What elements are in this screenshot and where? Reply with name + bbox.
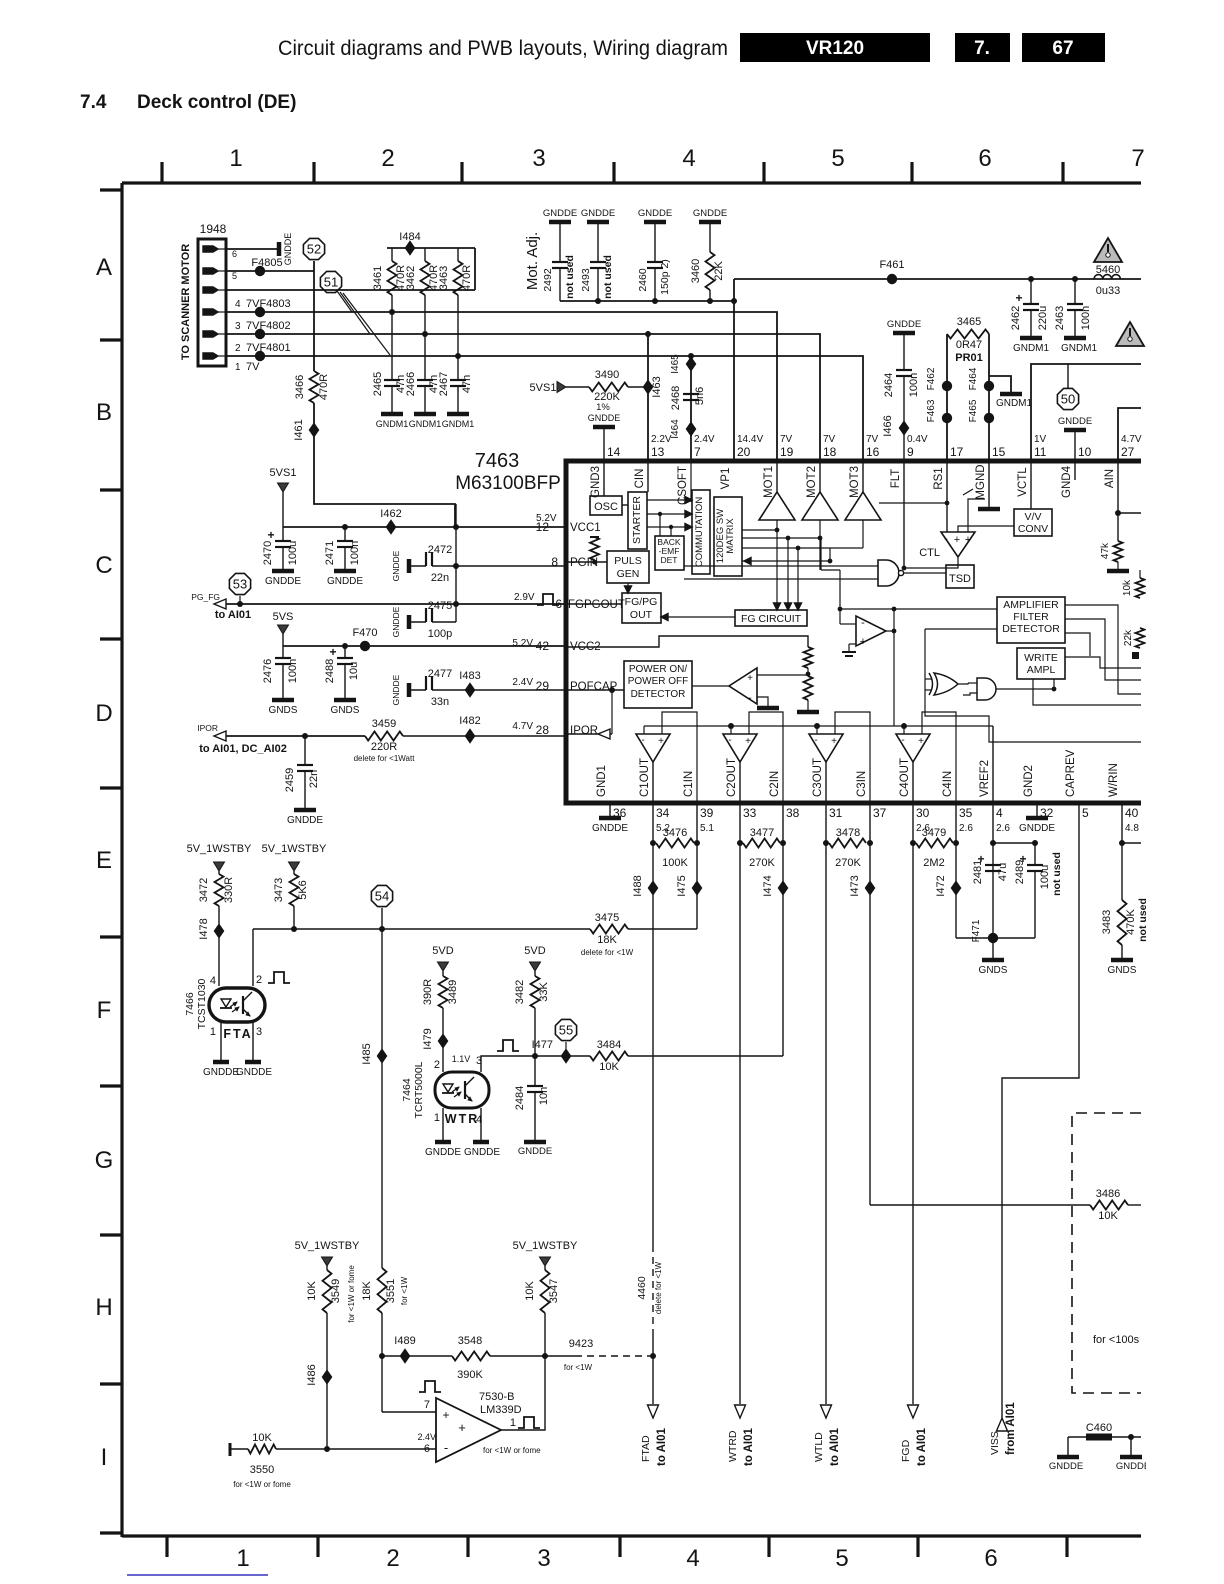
svg-text:37: 37	[873, 806, 887, 820]
svg-text:B: B	[96, 399, 112, 426]
svg-text:47n: 47n	[461, 375, 473, 393]
svg-text:not used: not used	[564, 255, 576, 299]
svg-text:3476: 3476	[663, 827, 687, 839]
wire 9423 dashed	[545, 1355, 575, 1357]
svg-text:1: 1	[235, 362, 241, 373]
wire 3489 to opto pin2	[442, 1008, 444, 1072]
svg-text:2470: 2470	[262, 541, 274, 565]
wire AIN above IC	[1118, 408, 1141, 461]
svg-text:3475: 3475	[595, 912, 619, 924]
svg-text:I462: I462	[380, 508, 401, 520]
svg-text:+: +	[747, 673, 753, 684]
svg-text:20: 20	[737, 445, 751, 459]
svg-text:3472: 3472	[198, 878, 210, 902]
vertical junction wire x456	[455, 504, 457, 622]
capacitor 2475 100p	[407, 615, 412, 629]
wire PULS GEN to FG/PG OUT	[627, 583, 629, 590]
svg-text:for <1W or fome: for <1W or fome	[233, 1480, 291, 1489]
node I479	[439, 1035, 448, 1048]
wire feedback into matrix	[742, 560, 830, 562]
wire 3461 to phase	[391, 295, 393, 312]
wire comparator minus to ground	[757, 697, 768, 706]
svg-text:F464: F464	[968, 367, 979, 390]
wire rail to opto pin2	[252, 929, 254, 986]
wire comparator rail riser	[893, 631, 895, 726]
svg-text:5: 5	[232, 271, 237, 281]
svg-text:38: 38	[786, 806, 800, 820]
svg-text:2.2V: 2.2V	[651, 434, 672, 445]
svg-text:2.4V: 2.4V	[417, 1432, 436, 1442]
svg-text:GNDDE: GNDDE	[1116, 1461, 1150, 1472]
svg-text:I461: I461	[293, 419, 305, 440]
svg-text:7.4: 7.4	[80, 92, 107, 113]
svg-text:GNDS: GNDS	[269, 705, 298, 716]
svg-text:I477: I477	[532, 1039, 553, 1051]
svg-text:4: 4	[996, 806, 1003, 820]
comparator C3	[809, 734, 843, 762]
wire 3484 to pin38 line	[628, 1055, 783, 1057]
svg-text:+: +	[658, 736, 664, 747]
capacitor 2470 100u	[282, 527, 284, 541]
capacitor 2468 5n6	[683, 393, 699, 395]
wire 3466 to I461	[313, 403, 315, 430]
svg-text:I482: I482	[459, 715, 480, 727]
wire OSC to STARTER	[622, 504, 628, 506]
svg-text:2459: 2459	[284, 768, 296, 792]
motor amp MOT2	[802, 492, 838, 520]
svg-text:+: +	[745, 736, 751, 747]
cap internal ref	[848, 644, 850, 652]
svg-text:100n: 100n	[908, 373, 920, 397]
svg-text:GNDDE: GNDDE	[887, 319, 921, 330]
svg-text:29: 29	[536, 679, 550, 693]
svg-text:OUT: OUT	[630, 609, 653, 621]
svg-text:7V: 7V	[823, 434, 836, 445]
svg-text:POWER OFF: POWER OFF	[628, 676, 689, 687]
svg-text:3461: 3461	[372, 266, 384, 290]
svg-text:C3OUT: C3OUT	[812, 758, 824, 797]
svg-text:F462: F462	[926, 367, 937, 390]
jumper 4460 dashed delete	[652, 1245, 654, 1330]
svg-text:220u: 220u	[1037, 306, 1049, 330]
svg-text:7V: 7V	[780, 434, 793, 445]
IC block AMPLIFIER FILTER DETECTOR	[997, 597, 1065, 643]
wire I466 to pin9	[903, 434, 905, 461]
wire comparator output	[501, 1356, 545, 1430]
svg-text:A: A	[96, 254, 112, 281]
svg-text:3477: 3477	[750, 827, 774, 839]
svg-text:C2OUT: C2OUT	[726, 758, 738, 797]
wires opto FTA grounds	[220, 1022, 222, 1060]
svg-text:2468: 2468	[670, 386, 682, 410]
svg-text:PR01: PR01	[955, 352, 983, 364]
resistor 10k internal	[1136, 578, 1145, 598]
svg-text:GND1: GND1	[596, 765, 608, 797]
svg-text:40: 40	[1125, 806, 1139, 820]
svg-text:22k: 22k	[1123, 629, 1134, 646]
svg-text:H: H	[95, 1294, 112, 1321]
svg-text:3486: 3486	[1096, 1188, 1120, 1200]
svg-text:-: -	[861, 617, 865, 629]
svg-text:I483: I483	[459, 670, 480, 682]
IC block WRITE AMPL	[1017, 648, 1065, 679]
ground GNDM1 2466	[414, 412, 436, 417]
svg-text:FTAD: FTAD	[640, 1435, 652, 1462]
svg-text:V/V: V/V	[1025, 511, 1042, 523]
IC block STARTER	[628, 492, 647, 549]
svg-text:11: 11	[1034, 445, 1047, 459]
wire pin32 GND2 to ground	[1036, 803, 1038, 816]
svg-text:C1IN: C1IN	[683, 771, 695, 797]
node F465	[984, 413, 994, 423]
svg-text:35: 35	[959, 806, 973, 820]
svg-text:C: C	[95, 552, 112, 579]
wire 3459 to I482	[403, 735, 470, 737]
wire RS1 to CTL	[946, 461, 948, 532]
svg-text:6: 6	[984, 1545, 997, 1572]
svg-text:Deck control (DE): Deck control (DE)	[137, 92, 296, 113]
wire pin8 from rail	[456, 565, 566, 567]
svg-text:3: 3	[256, 1026, 262, 1038]
ref circle 53	[229, 573, 250, 594]
resistor 3483 470K not used	[1118, 900, 1127, 945]
ref circle 52	[303, 238, 324, 259]
svg-text:C1OUT: C1OUT	[639, 758, 651, 797]
svg-text:0R47: 0R47	[956, 339, 982, 351]
svg-text:470K: 470K	[1125, 908, 1137, 934]
svg-text:+: +	[965, 534, 971, 546]
svg-text:53: 53	[233, 577, 247, 592]
dashed option box	[1072, 1113, 1141, 1393]
wire 3547 down	[544, 1313, 546, 1356]
svg-text:10K: 10K	[306, 1281, 318, 1301]
svg-text:I488: I488	[632, 875, 644, 896]
svg-text:30: 30	[916, 806, 930, 820]
resistor 3482 33K	[534, 971, 536, 976]
svg-text:W/RIN: W/RIN	[1108, 763, 1120, 797]
node I489	[401, 1350, 410, 1363]
capacitor 2484 10n	[534, 1056, 536, 1086]
svg-text:3547: 3547	[548, 1279, 560, 1303]
wire pin13 CIN net	[647, 334, 649, 461]
warning triangle 2	[1116, 322, 1144, 346]
svg-text:C460: C460	[1086, 1422, 1112, 1434]
svg-text:2481: 2481	[972, 860, 984, 884]
svg-text:0.4V: 0.4V	[907, 434, 928, 445]
resistor 3489 390R	[442, 971, 444, 976]
svg-text:2.4V: 2.4V	[512, 677, 533, 688]
wire comparator minus input	[276, 1448, 436, 1450]
svg-text:10K: 10K	[599, 1061, 619, 1073]
svg-text:+: +	[329, 645, 336, 659]
svg-text:22n: 22n	[308, 770, 320, 788]
net arrow WTLD to AI01	[821, 1405, 832, 1418]
svg-text:VP1: VP1	[720, 468, 732, 490]
svg-text:to AI01: to AI01	[829, 1427, 841, 1466]
capacitor 2463 100n	[1074, 279, 1076, 304]
resistor 3466 470R	[310, 371, 319, 403]
svg-text:VISS: VISS	[989, 1431, 1001, 1455]
comparator input rail	[643, 726, 645, 734]
svg-text:FG/PG: FG/PG	[625, 596, 658, 608]
pointer lines from 51	[337, 291, 352, 312]
resistor 47k internal	[1114, 541, 1123, 562]
svg-text:7: 7	[694, 445, 701, 459]
svg-text:WTLD: WTLD	[813, 1432, 825, 1462]
svg-text:PULS: PULS	[614, 555, 641, 567]
wire pin38 down	[782, 803, 784, 1056]
svg-text:GNDDE: GNDDE	[391, 606, 401, 637]
svg-text:GNDDE: GNDDE	[543, 208, 577, 219]
gate wires	[925, 678, 932, 680]
wires opto WTR grounds	[442, 1108, 444, 1140]
wire pin33 down WTRD	[739, 803, 741, 1404]
svg-text:I479: I479	[422, 1028, 434, 1049]
comparator C2	[723, 734, 757, 762]
svg-text:MOT2: MOT2	[806, 466, 818, 498]
svg-text:3478: 3478	[836, 827, 860, 839]
capacitor 2488 10u	[344, 646, 346, 658]
wire pin8 PGIN to PULS GEN	[566, 561, 607, 563]
net arrow VISS from AI01	[997, 1418, 1008, 1431]
svg-text:27: 27	[1121, 445, 1135, 459]
header box 67	[1022, 33, 1105, 62]
svg-text:7.: 7.	[974, 38, 990, 59]
svg-text:100p: 100p	[428, 628, 452, 640]
svg-text:2477: 2477	[428, 668, 452, 680]
svg-text:4460: 4460	[636, 1276, 648, 1300]
wire pin35 down	[955, 803, 957, 938]
svg-text:2476: 2476	[262, 659, 274, 683]
capacitor 2489 100u not used	[993, 842, 1035, 844]
wire pin34 to FTAD arrow	[652, 1330, 654, 1404]
wire 3551 down	[381, 1313, 383, 1412]
wire POFCAP	[566, 689, 624, 691]
svg-text:16: 16	[866, 445, 880, 459]
svg-text:22K: 22K	[713, 261, 725, 281]
wire 3475 to pin39 line	[628, 928, 697, 930]
resistor 22k internal	[1136, 628, 1145, 648]
svg-text:CONV: CONV	[1018, 523, 1048, 535]
svg-text:67: 67	[1052, 38, 1073, 59]
svg-text:28: 28	[536, 723, 550, 737]
svg-text:470R: 470R	[461, 265, 473, 291]
svg-text:3484: 3484	[597, 1039, 621, 1051]
comparator 7530-B LM339D	[436, 1398, 501, 1462]
svg-text:1.1V: 1.1V	[452, 1054, 471, 1064]
wire AIN internal	[1117, 461, 1119, 541]
svg-text:5: 5	[1082, 806, 1089, 820]
svg-text:OSC: OSC	[594, 501, 618, 513]
svg-text:6: 6	[978, 145, 991, 172]
XOR gate	[934, 673, 958, 695]
capacitor 2462 220u	[1030, 279, 1032, 304]
svg-text:2: 2	[434, 1059, 440, 1071]
resistor 3551 18K	[378, 1268, 387, 1313]
svg-text:TCRT5000L: TCRT5000L	[413, 1061, 425, 1118]
wire F461 VP1 supply	[734, 278, 1141, 280]
wire write amp output	[886, 609, 894, 631]
node I478	[215, 925, 224, 938]
svg-text:2.6: 2.6	[996, 823, 1010, 834]
svg-text:47k: 47k	[1100, 542, 1111, 559]
IC block FG/PG OUT	[622, 593, 661, 623]
svg-text:+: +	[954, 534, 960, 546]
wire pin14 to OSC	[603, 461, 605, 496]
wire opto pin3 row	[481, 1056, 590, 1072]
svg-text:1: 1	[210, 1026, 216, 1038]
svg-text:1: 1	[434, 1112, 440, 1124]
svg-text:15: 15	[992, 445, 1006, 459]
svg-text:2465: 2465	[372, 372, 384, 396]
wire 50 to VCTL net	[1067, 364, 1069, 388]
svg-text:FG CIRCUIT: FG CIRCUIT	[741, 613, 802, 625]
svg-text:100u: 100u	[1039, 865, 1051, 889]
svg-text:270K: 270K	[749, 857, 775, 869]
svg-text:TCST1030: TCST1030	[196, 978, 208, 1029]
wire 3486 row	[870, 1204, 1090, 1206]
wire comparator to power detector	[692, 685, 729, 687]
svg-text:to AI01: to AI01	[656, 1427, 668, 1466]
internal resistor divider lower	[804, 676, 813, 700]
pulse glyph WTR	[497, 1040, 519, 1051]
wire pin10 GND4 stub	[1074, 461, 1076, 480]
svg-text:5VD: 5VD	[524, 945, 545, 957]
svg-text:I486: I486	[306, 1364, 318, 1385]
svg-text:STARTER: STARTER	[631, 496, 643, 544]
optocoupler 7466 TCST1030 FTA	[209, 988, 265, 1022]
svg-text:3483: 3483	[1101, 910, 1113, 934]
svg-text:2484: 2484	[514, 1086, 526, 1110]
svg-text:not used: not used	[602, 255, 614, 299]
svg-text:2488: 2488	[324, 659, 336, 683]
node I461	[310, 424, 319, 437]
svg-text:10n: 10n	[538, 1087, 550, 1105]
svg-text:2492: 2492	[542, 268, 554, 292]
svg-text:8: 8	[551, 555, 558, 569]
svg-text:2493: 2493	[580, 268, 592, 292]
wire VCC1 rail	[283, 526, 566, 528]
svg-text:GNDS: GNDS	[979, 965, 1008, 976]
svg-text:100n: 100n	[1080, 306, 1092, 330]
wire 3548 to node	[490, 1355, 545, 1357]
svg-text:G: G	[95, 1147, 114, 1174]
svg-text:2460: 2460	[637, 268, 649, 292]
svg-text:I478: I478	[198, 918, 210, 939]
node F471	[956, 937, 993, 939]
wire FG CIRCUIT to FG/PG OUT	[668, 616, 735, 618]
svg-text:GNDDE: GNDDE	[236, 1067, 272, 1078]
svg-text:7464: 7464	[401, 1078, 413, 1102]
wire snubber VP1 rail	[560, 300, 734, 302]
svg-text:270K: 270K	[835, 857, 861, 869]
ground GNDM1 2462	[1020, 336, 1042, 341]
svg-text:GNDDE: GNDDE	[592, 823, 628, 834]
svg-text:1: 1	[510, 1417, 516, 1429]
svg-text:GNDS: GNDS	[1108, 965, 1137, 976]
svg-text:Mot. Adj.: Mot. Adj.	[524, 232, 541, 290]
svg-text:FGPGOUT: FGPGOUT	[568, 599, 625, 611]
wire divider to comparator	[757, 674, 808, 676]
capacitor 2466 47n	[424, 334, 426, 380]
svg-text:2.9V: 2.9V	[514, 592, 535, 603]
svg-text:GNDDE: GNDDE	[588, 413, 621, 423]
wire pin2 7VF4802 to MOT2 pin18	[226, 334, 820, 461]
net arrow WTRD to AI01	[735, 1405, 746, 1418]
resistor 3473 5K6	[293, 871, 295, 874]
svg-text:100n: 100n	[349, 541, 361, 565]
svg-text:330R: 330R	[223, 877, 235, 903]
wire pin30 down FGD	[912, 803, 914, 1404]
svg-text:GNDM1: GNDM1	[1061, 343, 1098, 354]
capacitor 2481 47u	[985, 864, 1001, 866]
svg-text:for <100s: for <100s	[1093, 1334, 1140, 1346]
svg-text:for <1W: for <1W	[400, 1276, 409, 1305]
svg-text:33n: 33n	[431, 696, 449, 708]
ground GNDDE connector pin6	[277, 242, 282, 256]
motor amp MOT1	[759, 492, 795, 520]
IC block POWER ON OFF DETECTOR	[624, 661, 692, 708]
svg-text:5n6: 5n6	[694, 387, 706, 405]
svg-text:5.2V: 5.2V	[512, 638, 533, 649]
svg-text:GND2: GND2	[1023, 765, 1035, 797]
wire 3549 down	[326, 1313, 328, 1449]
wires STARTER outputs to BACK-EMF DET	[659, 514, 661, 536]
svg-text:-: -	[444, 1440, 448, 1455]
svg-text:4: 4	[210, 975, 216, 987]
svg-text:+: +	[267, 528, 274, 542]
svg-text:I: I	[101, 1444, 108, 1471]
node I472	[952, 882, 961, 895]
wire pin4 7V-common	[226, 289, 475, 291]
resistor 3549 10K	[326, 1266, 328, 1270]
svg-text:34: 34	[656, 806, 670, 820]
internal resistor divider upper	[804, 647, 813, 668]
svg-text:LM339D: LM339D	[480, 1404, 522, 1416]
node F4805	[255, 266, 265, 276]
svg-text:7: 7	[1131, 145, 1144, 172]
svg-text:GNDDE: GNDDE	[1019, 823, 1055, 834]
svg-text:3548: 3548	[458, 1335, 482, 1347]
svg-text:delete for <1Watt: delete for <1Watt	[354, 754, 416, 763]
svg-text:delete for <1W: delete for <1W	[581, 948, 634, 957]
svg-text:+: +	[918, 736, 924, 747]
wire I461 down and over to VCC1 rail	[314, 436, 455, 527]
svg-text:GNDM1: GNDM1	[409, 419, 442, 429]
ground internal 47k	[1107, 569, 1129, 574]
svg-text:2M2: 2M2	[923, 857, 944, 869]
wire pin1 7VF4801 to MOT3 pin16	[226, 356, 863, 461]
svg-text:5VS: 5VS	[273, 611, 294, 623]
svg-text:4: 4	[235, 299, 241, 310]
svg-text:5V_1WSTBY: 5V_1WSTBY	[262, 843, 327, 855]
svg-text:IPOR: IPOR	[197, 723, 218, 733]
wire VCTL to V/V CONV	[1030, 461, 1032, 509]
svg-text:F471: F471	[971, 919, 982, 942]
svg-text:I463: I463	[651, 376, 663, 397]
svg-text:WTRD: WTRD	[727, 1430, 739, 1462]
wire pin39 down	[696, 803, 698, 929]
svg-text:C4IN: C4IN	[942, 771, 954, 797]
svg-text:5V_1WSTBY: 5V_1WSTBY	[513, 1240, 578, 1252]
svg-text:F: F	[97, 997, 112, 1024]
svg-text:GNDM1: GNDM1	[442, 419, 475, 429]
svg-text:FGD: FGD	[900, 1439, 912, 1462]
wire V/V CONV to CTL	[958, 526, 1014, 532]
wire pin7 CSOFT net	[690, 356, 692, 461]
svg-text:5K6: 5K6	[297, 880, 309, 900]
node I485	[378, 1050, 387, 1063]
